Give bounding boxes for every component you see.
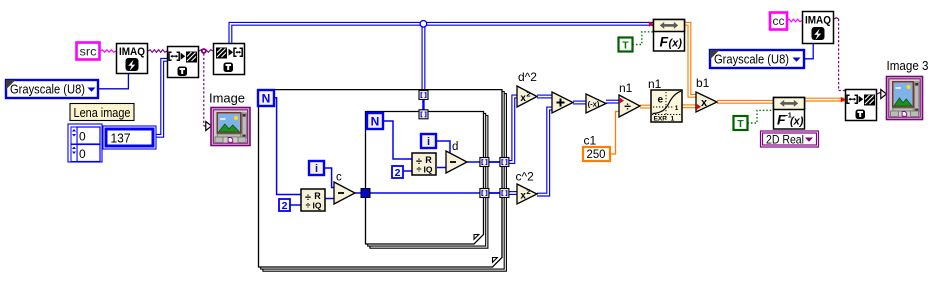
label c bbox=[336, 172, 342, 184]
for loop inner frame bbox=[366, 112, 488, 249]
svg-text:N: N bbox=[371, 114, 380, 128]
wire: FFT to multiply (double orange) bbox=[684, 22, 696, 97]
wire: 2D array from array control to ArrayToImage (double blue) bbox=[156, 58, 168, 137]
outer loop count terminal N bbox=[258, 90, 274, 106]
svg-text:c: c bbox=[336, 172, 342, 184]
svg-text:2: 2 bbox=[395, 167, 401, 179]
string constant cc bbox=[770, 13, 787, 30]
label Image bbox=[209, 90, 245, 105]
IMAQ ArrayToImage VI bbox=[168, 47, 199, 78]
wire: image type ring to IMAQ Create bbox=[98, 74, 128, 89]
wire: add to negate (double blue) bbox=[573, 101, 586, 104]
svg-text:i: i bbox=[315, 163, 318, 175]
wire: multiply to inverse FFT (double orange) bbox=[717, 100, 773, 103]
svg-text:F: F bbox=[660, 34, 669, 50]
FFT VI bbox=[654, 20, 685, 52]
wire: inner QR quotient to subtract bbox=[437, 167, 447, 169]
coercion dot ArrayToImage2 input bbox=[841, 97, 845, 103]
wire: d between right tunnels bbox=[489, 161, 500, 163]
svg-text:137: 137 bbox=[111, 132, 131, 146]
svg-text:T: T bbox=[737, 118, 744, 130]
IMAQ ArrayToImage VI 2 bbox=[846, 90, 877, 121]
wire junction on image wire bbox=[201, 48, 207, 54]
svg-text:i: i bbox=[427, 136, 430, 148]
add node bbox=[552, 92, 573, 113]
svg-text:Grayscale (U8): Grayscale (U8) bbox=[10, 82, 85, 96]
svg-text:R: R bbox=[425, 155, 432, 165]
svg-text:src: src bbox=[80, 45, 97, 59]
wire: d^2 to add (double blue) bbox=[537, 95, 552, 98]
wire: outer N to Quotient-Remainder bbox=[274, 98, 301, 195]
tunnel: d out of inner loop bbox=[480, 158, 489, 167]
label d bbox=[452, 141, 458, 153]
outer loop iteration terminal i bbox=[309, 161, 324, 175]
svg-text:IQ: IQ bbox=[424, 165, 433, 175]
wire: string cc to IMAQ Create 2 (pink squiggle) bbox=[787, 19, 802, 22]
svg-text:(x): (x) bbox=[790, 116, 804, 128]
svg-text:0: 0 bbox=[79, 147, 86, 161]
wire: inner i to subtract bbox=[436, 141, 450, 156]
svg-text:Image 3: Image 3 bbox=[887, 58, 929, 73]
svg-text:Grayscale (U8): Grayscale (U8) bbox=[714, 52, 789, 66]
wire: T constant to inverse FFT (dotted green) bbox=[748, 110, 774, 123]
wire: constant c1 to divide bbox=[610, 112, 620, 155]
quotient-remainder outer bbox=[301, 189, 325, 211]
subtract node inner bbox=[446, 151, 467, 173]
free label Lena image bbox=[70, 104, 134, 121]
svg-text:x: x bbox=[701, 97, 708, 109]
wire: c array to c^2 (double blue) bbox=[509, 192, 517, 195]
tunnel: array into outer loop top bbox=[419, 91, 428, 100]
divide node bbox=[619, 95, 640, 117]
array element numeric 137 bbox=[103, 126, 156, 149]
inner loop iteration terminal i bbox=[421, 134, 436, 148]
subtract node outer bbox=[334, 182, 355, 204]
wire: outer QR quotient to subtract bbox=[325, 198, 335, 200]
IMAQ ImageToArray VI bbox=[214, 44, 245, 75]
inverse FFT VI bbox=[774, 98, 805, 130]
svg-text:R: R bbox=[314, 191, 321, 201]
svg-text:1: 1 bbox=[671, 116, 675, 123]
wire: inner N to Quotient-Remainder bbox=[383, 121, 412, 159]
constant 2 outer bbox=[279, 199, 290, 212]
Image display terminal bbox=[206, 108, 250, 146]
wire: image branch down to Image display (dashed purple) bbox=[204, 54, 207, 127]
IMAQ Create VI bbox=[117, 44, 148, 74]
wire: outer i to subtract bbox=[324, 168, 335, 188]
svg-text:1: 1 bbox=[675, 105, 679, 112]
svg-text:2: 2 bbox=[526, 90, 530, 99]
tunnel: c into inner loop (solid) bbox=[361, 189, 370, 198]
wire: c^2 to add (double blue) bbox=[537, 107, 552, 196]
image type ring constant Grayscale (U8) 2 bbox=[710, 50, 804, 68]
wire: outer 2 to Quotient-Remainder bbox=[290, 204, 301, 206]
tunnel: c out of outer loop bbox=[500, 189, 509, 198]
svg-text:EXP: EXP bbox=[654, 116, 668, 123]
label b1 bbox=[696, 76, 710, 90]
svg-text:e: e bbox=[658, 95, 664, 106]
wire: negate to divide (double blue) bbox=[606, 100, 619, 103]
wire: string src to IMAQ Create (pink squiggle) bbox=[100, 50, 116, 53]
inner loop count terminal N bbox=[367, 113, 383, 129]
svg-text:n1: n1 bbox=[648, 77, 662, 91]
svg-text:÷: ÷ bbox=[417, 165, 422, 175]
svg-text:÷: ÷ bbox=[306, 201, 311, 211]
array index controls bbox=[68, 124, 102, 162]
label d^2 bbox=[518, 70, 537, 84]
constant c1 250 bbox=[583, 147, 610, 161]
wire: T constant to FFT (dotted green) bbox=[633, 32, 654, 45]
svg-text:(-x): (-x) bbox=[588, 99, 600, 108]
wire: c between right tunnels bbox=[489, 192, 500, 194]
IMAQ Create VI 2 bbox=[803, 12, 834, 44]
boolean constant T for FFT bbox=[619, 38, 633, 52]
constant 2 inner bbox=[392, 166, 403, 179]
wire: c from subtract to inner-loop tunnel bbox=[355, 192, 362, 194]
wire: image ArrayToImage to ImageToArray bbox=[199, 50, 213, 53]
svg-text:÷: ÷ bbox=[624, 100, 631, 114]
svg-text:c^2: c^2 bbox=[516, 170, 535, 184]
Image 3 display terminal bbox=[881, 77, 923, 120]
wire: inner 2 to Quotient-Remainder bbox=[404, 170, 412, 172]
boolean constant T for inverse FFT bbox=[734, 116, 748, 130]
wire junction on 2D array wire bbox=[420, 21, 427, 28]
svg-text:n1: n1 bbox=[619, 81, 633, 95]
svg-text:N: N bbox=[262, 91, 271, 105]
svg-text:2D Real: 2D Real bbox=[766, 132, 804, 146]
ring constant 2D Real bbox=[761, 131, 819, 147]
svg-text:IQ: IQ bbox=[313, 201, 322, 211]
quotient-remainder inner bbox=[412, 153, 436, 175]
svg-text:c1: c1 bbox=[584, 134, 597, 148]
wire: c across inner loop bbox=[370, 192, 481, 194]
wire: 2D array from ImageToArray to FFT (double blue) bbox=[229, 22, 653, 43]
tunnel: c out of inner loop bbox=[480, 189, 489, 198]
tunnel: array into inner loop top bbox=[419, 110, 428, 119]
square node c^2 bbox=[517, 184, 537, 204]
svg-text:d^2: d^2 bbox=[518, 70, 537, 84]
wire: divide to exponential (double orange) bbox=[640, 105, 651, 108]
tunnel: d out of outer loop bbox=[500, 158, 509, 167]
string constant src bbox=[77, 43, 100, 60]
svg-text:0: 0 bbox=[79, 130, 86, 144]
wire: image IMAQ Create to ArrayToImage bbox=[148, 50, 167, 53]
coercion dot multiply bbox=[697, 104, 701, 110]
wire: d from subtract to tunnel bbox=[467, 161, 480, 163]
wire: image ArrayToImage2 to Image 3 display bbox=[877, 93, 882, 94]
wire: 2D array branch down into loops (double blue) bbox=[422, 26, 425, 111]
svg-text:IMAQ: IMAQ bbox=[805, 15, 831, 27]
wire: d array to d^2 (double blue) bbox=[509, 95, 517, 163]
svg-text:b1: b1 bbox=[696, 76, 710, 90]
label c1 bbox=[584, 134, 597, 148]
wire: inverse FFT to ArrayToImage (double orange) bbox=[804, 98, 845, 101]
svg-text:Image: Image bbox=[209, 90, 245, 105]
svg-text:d: d bbox=[452, 141, 458, 153]
svg-text:T: T bbox=[622, 40, 629, 52]
label c^2 bbox=[516, 170, 535, 184]
svg-text:Lena image: Lena image bbox=[74, 106, 131, 120]
square node d^2 bbox=[517, 86, 537, 107]
coercion dot divide bbox=[620, 98, 624, 104]
multiply node bbox=[696, 92, 717, 112]
svg-text:2: 2 bbox=[282, 200, 288, 212]
coercion dot FFT input bbox=[649, 21, 653, 27]
label n1 divide bbox=[619, 81, 633, 95]
wire: exponential to multiply (double orange) bbox=[682, 105, 696, 108]
wire: image type ring 2 to IMAQ Create 2 bbox=[804, 44, 813, 59]
label Image 3 bbox=[887, 58, 929, 73]
label n1 exponential bbox=[648, 77, 662, 91]
svg-text:IMAQ: IMAQ bbox=[119, 46, 145, 58]
wire: image IMAQ2 down to ArrayToImage (purple) bbox=[834, 18, 845, 91]
svg-text:cc: cc bbox=[773, 16, 785, 28]
exponential node bbox=[651, 90, 682, 123]
svg-text:2: 2 bbox=[526, 187, 530, 196]
svg-text:(x): (x) bbox=[669, 38, 683, 50]
svg-text:250: 250 bbox=[587, 149, 606, 161]
image type ring constant Grayscale (U8) bbox=[6, 80, 98, 98]
for loop outer frame bbox=[259, 90, 507, 272]
negate node bbox=[586, 94, 606, 113]
